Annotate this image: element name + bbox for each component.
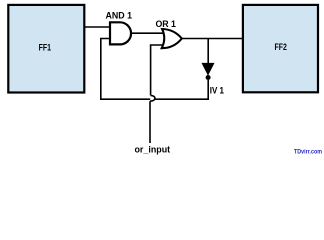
svg-text:AND 1: AND 1 <box>106 10 133 21</box>
svg-text:TDvirr.com: TDvirr.com <box>294 150 322 156</box>
svg-text:IV 1: IV 1 <box>210 85 225 96</box>
svg-text:FF1: FF1 <box>39 43 51 53</box>
svg-text:OR 1: OR 1 <box>155 19 176 30</box>
svg-text:FF2: FF2 <box>275 42 287 52</box>
svg-text:or_input: or_input <box>135 144 171 154</box>
